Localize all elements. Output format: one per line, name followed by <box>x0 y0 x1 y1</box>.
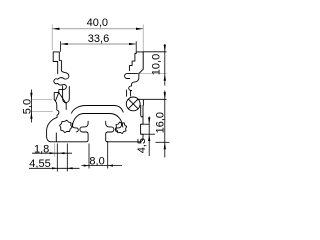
left channel diagonal into boss <box>63 86 70 103</box>
right foot serrated screw channel <box>115 122 126 133</box>
dimension 4,5 <box>136 117 150 157</box>
right foot inner hook <box>116 123 122 132</box>
svg-text:8,0: 8,0 <box>89 156 104 168</box>
right slot wall right <box>130 91 132 97</box>
extension line top of 16,0 <box>144 98 167 100</box>
dimension 4,55 <box>29 158 80 170</box>
left boss small circle <box>60 120 72 132</box>
center hump outer <box>72 106 124 114</box>
dimension 8,0 <box>82 156 123 168</box>
svg-text:1,8: 1,8 <box>34 144 49 156</box>
extension line left of 40,0 <box>51 25 53 51</box>
svg-text:10,0: 10,0 <box>150 54 162 75</box>
extension line bottom of 5,0 <box>31 111 54 113</box>
dimension 40,0 <box>52 17 143 30</box>
dimension 33,6 <box>61 33 137 45</box>
right boss cross line 1 <box>128 99 138 109</box>
right boss ledge <box>137 99 143 105</box>
center channel inner arch <box>72 114 123 128</box>
left foot inner vertical <box>55 133 57 142</box>
svg-text:40,0: 40,0 <box>87 17 108 29</box>
left arm inner with nub <box>59 52 69 79</box>
extension line right of 33,6 <box>135 41 137 52</box>
extension line 8,0 left <box>88 144 90 169</box>
dimension 1,8 <box>32 144 72 156</box>
extension line 4,5 top <box>141 123 149 125</box>
left arm outer <box>53 52 59 74</box>
left screw channel serrated <box>65 103 67 110</box>
dimension 10,0 <box>150 44 166 86</box>
right hook lower notch <box>129 82 135 91</box>
svg-text:5,0: 5,0 <box>21 99 33 114</box>
svg-text:4,55: 4,55 <box>29 158 50 170</box>
extension line bottom of 16,0 <box>156 141 170 143</box>
left foot inner hook <box>72 123 78 132</box>
extension line left of 33,6 <box>60 41 62 52</box>
left hook upper finger <box>54 78 63 84</box>
extension line 1,8/4,55 left <box>56 144 58 172</box>
extension line top of 10,0 <box>143 51 166 53</box>
right hook upper notch <box>125 74 138 79</box>
extension line 4,5 bottom <box>141 133 155 135</box>
extension line top of 5,0 <box>31 99 53 101</box>
right arm outer <box>135 52 143 82</box>
svg-text:4,5: 4,5 <box>136 138 148 153</box>
dimension 16,0 <box>155 91 167 158</box>
extension line bottom of 10,0 <box>139 73 167 75</box>
right slot wall left <box>126 90 128 96</box>
dimension 5,0 <box>21 90 33 123</box>
right arm inner steps <box>129 52 136 71</box>
right foot slot <box>141 105 143 117</box>
extension line 4,55 right <box>66 144 68 172</box>
right boss cross line 2 <box>128 99 138 109</box>
left hook lower finger <box>58 83 67 92</box>
extension line gray bottom-left <box>54 144 56 157</box>
right foot and bottom notch <box>106 105 143 142</box>
left tooth <box>54 93 66 104</box>
extension line 8,0 right <box>107 141 109 169</box>
extension line right of 40,0 <box>142 25 144 71</box>
svg-text:33,6: 33,6 <box>88 33 109 45</box>
svg-text:16,0: 16,0 <box>155 112 167 133</box>
left body edge below tooth <box>47 101 59 142</box>
right screw boss circle <box>126 97 140 111</box>
bottom edge and left foot <box>51 121 88 142</box>
